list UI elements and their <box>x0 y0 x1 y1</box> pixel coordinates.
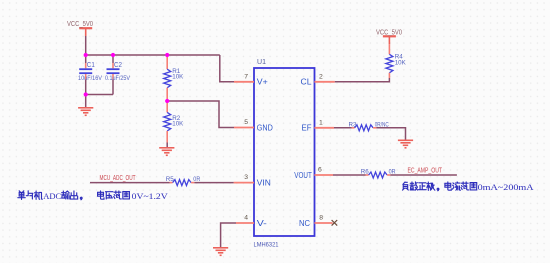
junction node D <box>165 99 169 103</box>
pin 1 EF <box>302 119 335 132</box>
svg-text:V+: V+ <box>257 78 268 87</box>
svg-text:GND: GND <box>257 123 273 132</box>
wire MCU_ADC_OUT stub to R5 <box>90 182 170 184</box>
svg-text:4: 4 <box>244 215 248 222</box>
resistor R4 10K <box>386 44 406 78</box>
pin 7 V+ <box>234 73 268 86</box>
junction node B <box>111 53 115 57</box>
wire pin4 to ground <box>221 223 236 248</box>
pin 4 V- <box>236 215 267 228</box>
svg-text:R5: R5 <box>166 176 174 183</box>
svg-text:U1: U1 <box>257 59 266 66</box>
wire cap bottoms join y=94.5 <box>86 94 113 96</box>
resistor R5 0R <box>166 176 201 186</box>
svg-text:ADC: ADC <box>43 191 61 201</box>
svg-text:LMH6321: LMH6321 <box>254 241 279 248</box>
ground below R2 <box>159 148 174 156</box>
pin 5 GND <box>234 119 273 132</box>
ground at R3 output <box>398 140 413 148</box>
svg-text:EF: EF <box>302 124 312 133</box>
svg-text:EC_AMP_OUT: EC_AMP_OUT <box>408 168 443 175</box>
wire R5 to pin 3 <box>194 182 233 184</box>
svg-text:3: 3 <box>244 174 248 181</box>
op-amp buffer U1 LMH6321 box <box>254 68 315 236</box>
resistor R3 0R/NC <box>349 121 389 131</box>
svg-text:2: 2 <box>319 73 323 80</box>
svg-text:VCC_5V0: VCC_5V0 <box>67 21 93 28</box>
svg-text:10K: 10K <box>395 59 407 66</box>
power port VCC_5V0 (right) <box>376 29 402 44</box>
power port VCC_5V0 (left) <box>67 21 93 36</box>
svg-text:6: 6 <box>318 167 322 174</box>
pin 8 NC <box>299 215 333 228</box>
junction node A <box>84 53 88 57</box>
svg-text:0mA~200mA: 0mA~200mA <box>478 182 535 192</box>
capacitor C1 10uF/16V <box>78 55 103 95</box>
wire R4 to pin 2 <box>335 78 390 82</box>
svg-text:CL: CL <box>301 78 313 87</box>
no-connect X on pin 8 <box>332 220 338 226</box>
ground below C1/C2 <box>78 108 93 116</box>
annotation text: load positive, current range 0mA-200mA <box>402 182 534 192</box>
svg-text:MCU_ADC_OUT: MCU_ADC_OUT <box>100 175 136 182</box>
wire VCC stem to top rail <box>85 36 87 55</box>
annotation text: MCU ADC output, voltage range 0V-1.2V <box>18 191 169 201</box>
wire stem to ground below caps <box>85 95 87 108</box>
svg-text:VOUT: VOUT <box>294 171 312 180</box>
svg-text:C1: C1 <box>87 62 95 69</box>
wire pin1 to R3 <box>334 127 352 129</box>
ground below V- <box>213 248 228 256</box>
svg-text:V-: V- <box>257 219 267 228</box>
junction node C <box>165 53 169 57</box>
svg-text:10K: 10K <box>172 121 184 128</box>
svg-text:0.1uF/25V: 0.1uF/25V <box>105 75 131 82</box>
svg-text:1: 1 <box>319 119 323 126</box>
wire R3 to ground corner <box>376 128 405 140</box>
svg-text:C2: C2 <box>114 62 122 69</box>
wire pin6 to R6 <box>333 174 366 176</box>
svg-text:7: 7 <box>244 73 248 80</box>
wire top rail y=55 <box>86 54 220 56</box>
svg-text:5: 5 <box>244 119 248 126</box>
pin 3 VIN <box>234 174 271 187</box>
resistor R2 10K <box>164 101 184 148</box>
svg-text:10uF/16V: 10uF/16V <box>78 75 103 82</box>
wire R6 to EC_AMP_OUT stub end <box>390 174 457 176</box>
pin 2 CL <box>301 73 335 86</box>
wire R1/R2 node to pin5 (GND) <box>167 101 234 128</box>
svg-text:R3: R3 <box>349 121 357 128</box>
junction node E <box>84 92 88 96</box>
svg-text:10K: 10K <box>172 74 184 81</box>
resistor R1 10K <box>164 55 184 101</box>
pin 6 VOUT <box>294 167 333 180</box>
svg-text:R6: R6 <box>361 169 369 176</box>
capacitor C2 0.1uF/25V <box>105 55 131 95</box>
svg-text:VIN: VIN <box>257 178 271 187</box>
svg-text:8: 8 <box>319 215 323 222</box>
svg-text:NC: NC <box>299 219 310 228</box>
svg-text:0V~1.2V: 0V~1.2V <box>132 191 169 201</box>
resistor R6 0R <box>361 169 396 179</box>
svg-text:VCC_5V0: VCC_5V0 <box>376 29 402 36</box>
wire rail corner down to pin7 row <box>220 55 234 82</box>
